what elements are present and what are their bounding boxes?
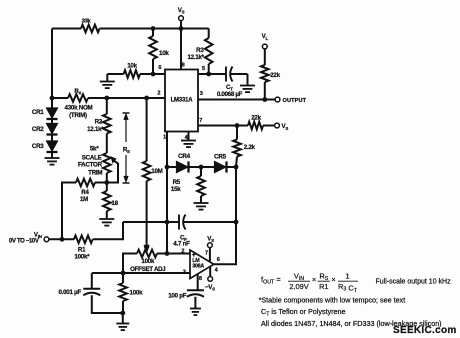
- svg-text:OUTPUT: OUTPUT: [283, 98, 307, 104]
- svg-text:R5: R5: [173, 179, 181, 186]
- svg-text:2.09V: 2.09V: [289, 282, 308, 291]
- svg-text:CR5: CR5: [214, 154, 226, 161]
- svg-text:2: 2: [157, 90, 160, 96]
- svg-text:VIN: VIN: [294, 271, 304, 282]
- svg-text:5: 5: [202, 66, 205, 72]
- svg-text:Full-scale output 10 kHz: Full-scale output 10 kHz: [376, 279, 452, 286]
- svg-text:15k: 15k: [171, 186, 181, 193]
- svg-text:33k: 33k: [82, 19, 92, 25]
- svg-text:1: 1: [163, 135, 166, 141]
- svg-text:10k: 10k: [127, 63, 137, 70]
- svg-text:R2: R2: [95, 119, 103, 126]
- svg-text:4.7 nF: 4.7 nF: [173, 241, 190, 248]
- svg-text:R1: R1: [78, 246, 86, 253]
- svg-text:10M: 10M: [151, 168, 162, 175]
- svg-text:6: 6: [158, 65, 161, 71]
- svg-text:10k: 10k: [159, 50, 169, 57]
- svg-text:7: 7: [205, 251, 208, 257]
- svg-text:RS: RS: [123, 147, 130, 155]
- svg-text:100 pF: 100 pF: [168, 292, 187, 299]
- svg-text:CR4: CR4: [178, 153, 190, 160]
- svg-text:22k: 22k: [251, 114, 261, 121]
- svg-text:8: 8: [199, 276, 202, 282]
- svg-text:100k: 100k: [141, 258, 155, 265]
- svg-text:18: 18: [111, 200, 118, 207]
- svg-text:CR1: CR1: [32, 109, 44, 116]
- svg-text:TRIM: TRIM: [88, 170, 102, 177]
- svg-text:8: 8: [182, 62, 185, 68]
- svg-text:CT is Teflon or Polystyrene: CT is Teflon or Polystyrene: [261, 307, 346, 318]
- svg-text:100k: 100k: [130, 290, 144, 297]
- svg-text:R4: R4: [81, 189, 89, 196]
- svg-text:SCALE: SCALE: [82, 154, 102, 161]
- svg-text:VS: VS: [282, 123, 289, 131]
- svg-text:R3: R3: [196, 47, 204, 54]
- svg-text:fOUT =: fOUT =: [261, 275, 281, 286]
- svg-text:R1: R1: [319, 282, 328, 291]
- svg-text:R3 CT: R3 CT: [338, 282, 358, 294]
- svg-text:0.001 µF: 0.001 µF: [58, 289, 81, 296]
- svg-text:−VS: −VS: [205, 284, 215, 292]
- svg-text:0V TO −10V: 0V TO −10V: [9, 238, 39, 244]
- svg-text:VS: VS: [207, 235, 214, 243]
- svg-text:0.0068 µF: 0.0068 µF: [217, 91, 243, 98]
- svg-text:*Stable components with low te: *Stable components with low tempco; see …: [259, 296, 406, 305]
- svg-text:5k*: 5k*: [90, 145, 99, 152]
- svg-text:LM331A: LM331A: [171, 97, 194, 103]
- svg-text:6: 6: [217, 257, 220, 263]
- svg-text:430k NOM: 430k NOM: [65, 105, 93, 112]
- svg-text:VS: VS: [178, 7, 185, 15]
- svg-text:3: 3: [200, 91, 203, 97]
- svg-text:×: ×: [312, 275, 316, 284]
- svg-text:CR2: CR2: [32, 126, 44, 133]
- svg-text:1M: 1M: [80, 196, 88, 203]
- svg-text:22k: 22k: [270, 72, 280, 79]
- svg-text:RX: RX: [74, 88, 81, 96]
- svg-text:RS: RS: [319, 271, 328, 282]
- svg-text:2.2k: 2.2k: [244, 144, 256, 151]
- svg-text:×: ×: [331, 275, 335, 284]
- svg-text:100k*: 100k*: [74, 253, 90, 260]
- svg-text:308A: 308A: [192, 264, 204, 270]
- svg-text:(TRIM): (TRIM): [69, 112, 87, 119]
- svg-text:12.1k*: 12.1k*: [188, 54, 205, 61]
- svg-text:FACTOR: FACTOR: [78, 162, 103, 169]
- svg-text:SEEKIC.com: SEEKIC.com: [393, 325, 457, 336]
- svg-text:VL: VL: [262, 33, 269, 41]
- svg-text:7: 7: [199, 118, 202, 124]
- svg-text:CR3: CR3: [32, 143, 44, 150]
- svg-text:12.1k*: 12.1k*: [87, 126, 104, 133]
- svg-text:1: 1: [345, 271, 349, 280]
- svg-text:4: 4: [215, 268, 219, 274]
